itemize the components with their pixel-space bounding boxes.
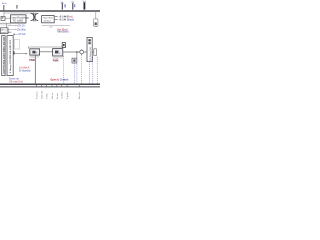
dashed wire d7 (96, 57, 98, 84)
wire vertical from A area (34, 55, 36, 84)
svg-text:12v Rail A: 12v Rail A (19, 67, 30, 70)
svg-text:Gate out: Gate out (41, 91, 44, 99)
capacitor C2 (64, 4, 67, 7)
pin ticks (36, 84, 79, 87)
motor M1 (80, 50, 84, 54)
junction (13, 34, 15, 36)
dashed wire d5 (89, 62, 91, 84)
wire stub to J2 (95, 11, 97, 19)
resistor R right edge (94, 49, 97, 56)
wire arrow (64, 15, 66, 17)
dashed wire d2 (73, 63, 75, 84)
dashed wire d6 (92, 57, 94, 84)
bottom bus wire 2 (0, 86, 100, 88)
wire stub (49, 26, 51, 28)
svg-text:4 Gauge FIXTURE AB LINE OUT: 4 Gauge FIXTURE AB LINE OUT (9, 39, 12, 73)
wire lower branch (76, 52, 78, 58)
block: inverter A (30, 49, 40, 55)
cable duct L1 (2, 36, 5, 76)
cable duct L2 (7, 36, 13, 76)
faint box L3 (15, 40, 20, 50)
pin labels rotated (37, 91, 82, 99)
wire stub (51, 26, 53, 28)
wire (0, 22, 26, 24)
svg-text:Vb: Vb (61, 1, 65, 4)
wire (5, 23, 7, 28)
wire leader b2 (8, 28, 15, 30)
transformer T1 (31, 13, 35, 20)
component D1 above B (62, 43, 65, 48)
svg-text:G return: G return (61, 91, 64, 99)
svg-text:+5V 2A: +5V 2A (17, 24, 25, 27)
component on L2 edge (13, 51, 15, 54)
wire (5, 17, 11, 19)
wire driver right (92, 51, 96, 53)
bottom bus wire 1 (0, 83, 100, 85)
block: input rectifying U1 (11, 15, 26, 23)
svg-text:Abis (Blue): Abis (Blue) (57, 31, 68, 34)
svg-text:24 Volt: 24 Volt (18, 33, 25, 36)
relay K1 (72, 58, 77, 63)
svg-text:+B filter: +B filter (43, 20, 51, 23)
svg-text:voltage sel: voltage sel (52, 56, 62, 59)
svg-text:PWM: PWM (29, 60, 35, 62)
capacitor C1 (62, 3, 63, 10)
svg-text:Open &: Open & (50, 79, 59, 82)
svg-text:P good: P good (67, 92, 69, 99)
svg-text:(Black): (Black) (67, 20, 74, 22)
wire B to motor (63, 51, 80, 53)
dashed wire d1 (63, 56, 65, 84)
svg-text:Bus sel: Bus sel (79, 92, 81, 99)
svg-text:smart DIAG: smart DIAG (1, 31, 12, 34)
svg-text:Sense ret: Sense ret (9, 78, 19, 81)
wire into A (15, 53, 26, 55)
wire arrow out 1 (55, 15, 58, 17)
wire feed y47 (28, 47, 63, 49)
svg-text:Vd: Vd (83, 1, 87, 4)
block: secondary rectifier U2 (42, 16, 55, 23)
dashed wire d3 (76, 58, 78, 84)
svg-text:PC 3v800: PC 3v800 (13, 20, 24, 22)
wire leader b1 (8, 24, 15, 26)
svg-text:V refs: V refs (46, 94, 49, 99)
wire stub left (2, 5, 5, 11)
capacitor C3 (72, 3, 73, 10)
wire arrow out 2 (55, 19, 58, 21)
block: DC driver U4 (tall) (87, 37, 92, 61)
connector J2 (94, 19, 98, 27)
capacitor C5 (84, 2, 86, 9)
svg-text:P sense: P sense (37, 91, 39, 99)
svg-text:12v on: 12v on (52, 92, 54, 99)
dashed wire d4 (81, 55, 83, 84)
svg-text:Vc: Vc (71, 1, 75, 4)
wire under U2 (42, 25, 70, 27)
wire arrow b2 (15, 28, 16, 30)
fuse F1 (16, 5, 19, 9)
wire (4, 12, 34, 14)
svg-text:Sync Rect: Sync Rect (43, 17, 53, 20)
wire (3, 11, 5, 17)
svg-text:voltage sel: voltage sel (29, 56, 39, 59)
connector J1 (AC inlet) (1, 16, 5, 20)
svg-text:5v out: 5v out (56, 93, 59, 99)
svg-text:PWM: PWM (53, 60, 59, 62)
svg-text:ACin: ACin (2, 2, 8, 5)
svg-text:OUTPUT RAIL BUS FIXED LINE SET: OUTPUT RAIL BUS FIXED LINE SET (2, 36, 5, 74)
wire A to B (40, 51, 53, 53)
svg-text:Off main Gnd: Off main Gnd (9, 81, 23, 83)
wire (26, 17, 29, 19)
svg-text:(Red): (Red) (67, 16, 73, 18)
svg-text:Control: Control (60, 79, 69, 82)
svg-text:5v Standby: 5v Standby (19, 70, 31, 73)
top AC bus wire (0, 10, 100, 12)
capacitor C4 (73, 4, 76, 7)
svg-text:DC Driver Md: DC Driver Md (89, 47, 92, 61)
wire motor to driver (84, 51, 87, 53)
block: inverter B (53, 49, 63, 56)
block: line filter U3 (1, 28, 9, 34)
svg-text:15v 80m: 15v 80m (17, 29, 26, 31)
wire arrow b1 (15, 24, 16, 26)
svg-text:Input Rectifying: Input Rectifying (12, 16, 29, 19)
